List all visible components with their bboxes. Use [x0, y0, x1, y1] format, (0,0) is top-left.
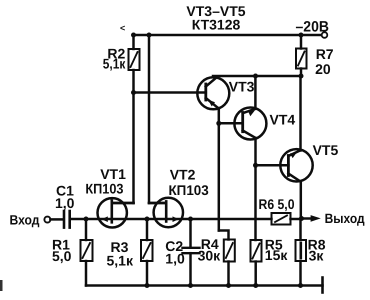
svg-text:VT2: VT2 — [170, 167, 196, 183]
node VT2 gate / C2 / feedback — [188, 217, 193, 222]
svg-text:Выход: Выход — [325, 211, 365, 226]
node X2: bus / R7 / VT5 emitter — [299, 74, 304, 79]
node rail-R2 junction — [131, 33, 136, 38]
wire VT2 drain vertical — [148, 35, 151, 203]
node input terminal — [44, 217, 50, 223]
capacitor C2 — [183, 247, 200, 249]
wire R3 lead — [146, 219, 149, 240]
wire VT1 drain vertical — [132, 93, 135, 204]
svg-text:20: 20 — [315, 61, 331, 77]
svg-text:–20В: –20В — [296, 19, 330, 36]
wire output arrow — [302, 217, 313, 220]
node X1: VT3 collector bus / VT4 emitter — [253, 74, 258, 79]
wire C2 bottom lead — [189, 253, 192, 285]
wire R6 to output node — [291, 218, 302, 221]
svg-text:3к: 3к — [309, 248, 325, 264]
node ground-C2 — [188, 283, 193, 288]
wire VT5 emitter up to R7 — [299, 76, 302, 151]
svg-text:<: < — [120, 23, 125, 33]
node ground-R3 — [145, 283, 150, 288]
wire input to C1 — [50, 218, 62, 221]
resistor R8 — [296, 240, 307, 261]
svg-text:1,0: 1,0 — [165, 251, 185, 267]
node ground-R4 — [226, 283, 231, 288]
resistor R5 — [251, 240, 262, 262]
ground terminal bar — [321, 278, 324, 293]
wire VT2 drain horizontal — [149, 202, 166, 205]
svg-text:R6 5,0: R6 5,0 — [259, 196, 295, 212]
edge artifact — [0, 280, 3, 291]
wire VT3 collector bus — [213, 75, 301, 78]
wire VT5 base lead — [256, 164, 289, 167]
transistor VT5 — [280, 149, 312, 181]
svg-text:30к: 30к — [198, 248, 222, 264]
svg-text:КП103: КП103 — [85, 181, 123, 197]
svg-text:R7: R7 — [316, 46, 334, 62]
resistor R6 — [272, 213, 291, 225]
wire VT5 collector down — [300, 182, 303, 219]
node ground-R5 — [253, 283, 258, 288]
resistor R4 — [224, 240, 235, 262]
wire ground bus — [86, 284, 323, 287]
node ground-R8 — [298, 283, 303, 288]
wire R4 jog — [219, 231, 229, 240]
wire R4 bottom — [227, 262, 230, 286]
wire VT1 drain horizontal — [112, 202, 134, 205]
node VT4 collector / VT5 base / R5 — [253, 163, 258, 168]
resistor R7 — [296, 49, 307, 69]
svg-text:VT5: VT5 — [313, 142, 339, 158]
wire R8 lead — [299, 219, 302, 241]
wire R5 branch — [254, 165, 257, 240]
svg-text:КП103: КП103 — [169, 182, 209, 198]
node VT1 source / VT2 source / R3 — [145, 217, 150, 222]
wire R1 bottom — [85, 261, 88, 286]
node A: R2/VT1 drain/VT3 base — [131, 90, 136, 95]
wire node A to VT3 base — [134, 91, 206, 94]
wire VT4 collector down — [254, 138, 257, 165]
svg-text:1,0: 1,0 — [55, 195, 75, 211]
wire C2 top lead — [189, 219, 192, 248]
wire R3 bottom — [146, 261, 149, 286]
wire R8 bottom — [299, 261, 302, 286]
node rail-VT2 drain junction — [147, 33, 152, 38]
transistor VT3 — [197, 77, 229, 109]
svg-text:VT4: VT4 — [270, 112, 296, 128]
transistor VT4 — [234, 108, 266, 140]
svg-text:5,1к: 5,1к — [103, 56, 126, 72]
wire R2 bottom to node A — [132, 70, 135, 93]
node terminal -20V — [322, 32, 328, 38]
wire R7 top lead — [300, 35, 303, 49]
wire R1 lead — [85, 219, 88, 240]
wire R5 bottom — [254, 262, 257, 286]
node input / R1 — [84, 217, 89, 222]
capacitor C1 — [63, 211, 66, 228]
svg-text:Вход: Вход — [10, 212, 40, 227]
svg-text:5,0: 5,0 — [52, 248, 72, 264]
transistor VT2 — [149, 198, 183, 227]
wire R2 top lead — [132, 35, 135, 49]
wire VT3 emitter vertical — [218, 108, 221, 231]
resistor R3 — [141, 240, 153, 261]
svg-text:КТ3128: КТ3128 — [192, 17, 241, 33]
wire top supply rail — [134, 34, 322, 37]
node VT3 emitter / VT4 base — [216, 121, 221, 126]
svg-text:VT3: VT3 — [229, 79, 255, 95]
node output: R6/VT5 collector/R8 — [299, 216, 304, 221]
wire main signal line — [70, 218, 272, 221]
node rail-R7 junction — [299, 33, 304, 38]
resistor R1 — [81, 240, 93, 261]
wire VT4 emitter up — [254, 76, 257, 109]
svg-text:15к: 15к — [265, 247, 289, 263]
svg-text:5,1к: 5,1к — [107, 253, 134, 269]
resistor R2 — [129, 49, 140, 70]
wire VT4 base lead — [219, 122, 243, 125]
wire R7 bottom lead — [300, 69, 303, 77]
transistor VT1 — [98, 198, 134, 227]
